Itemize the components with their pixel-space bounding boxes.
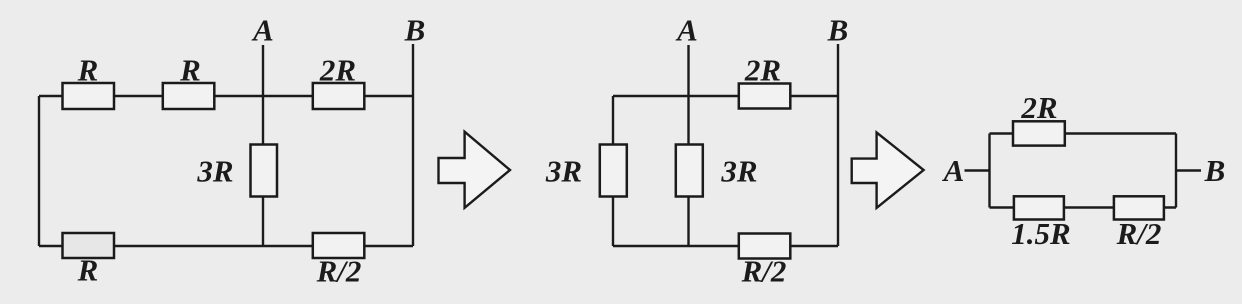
wire: circuit 3 node A stub bbox=[965, 169, 990, 171]
svg-text:B: B bbox=[827, 13, 849, 48]
svg-text:R/2: R/2 bbox=[316, 254, 362, 289]
wire: circuit 1 top wire bbox=[39, 95, 413, 97]
wire: circuit 2 node A vertical bbox=[687, 45, 689, 246]
wire: circuit 1 node B right rail bbox=[412, 44, 414, 246]
wire: circuit 2 top wire bbox=[613, 95, 838, 97]
svg-text:B: B bbox=[404, 13, 426, 48]
resistor R (circuit 1 top-left) bbox=[63, 83, 115, 109]
svg-text:B: B bbox=[1204, 153, 1226, 188]
arrow (between circuit 1 and circuit 2) bbox=[439, 132, 511, 208]
resistor 2R (circuit 3 top) bbox=[1013, 121, 1065, 145]
svg-text:A: A bbox=[251, 13, 274, 48]
wire: circuit 3 right rail bbox=[1175, 134, 1177, 208]
wire: circuit 2 bottom wire bbox=[613, 245, 838, 247]
resistor 3R (circuit 2 middle vertical) bbox=[676, 145, 703, 197]
resistor 3R (circuit 2 left vertical) bbox=[600, 145, 627, 197]
wire: circuit 3 bottom branch bbox=[990, 206, 1177, 208]
svg-text:R/2: R/2 bbox=[1116, 216, 1162, 251]
wire: circuit 3 node B stub bbox=[1176, 169, 1201, 171]
resistor R/2 (circuit 2 bottom) bbox=[739, 234, 791, 259]
wire: circuit 3 top branch bbox=[990, 132, 1177, 134]
resistor R (circuit 1 top-middle) bbox=[163, 83, 215, 109]
wire: circuit 3 left rail bbox=[988, 134, 990, 208]
svg-text:2R: 2R bbox=[1020, 90, 1057, 125]
svg-text:R/2: R/2 bbox=[741, 254, 787, 289]
svg-text:2R: 2R bbox=[319, 53, 356, 88]
resistor 2R (circuit 1 top-right) bbox=[313, 83, 365, 109]
wire: circuit 1 node A vertical bbox=[262, 45, 264, 246]
arrow (between circuit 2 and circuit 3) bbox=[852, 133, 924, 208]
wire: circuit 1 bottom wire bbox=[39, 245, 413, 247]
resistor R/2 (circuit 3 bottom-right) bbox=[1114, 196, 1164, 219]
svg-text:3R: 3R bbox=[545, 154, 582, 189]
svg-text:R: R bbox=[179, 53, 201, 88]
svg-text:1.5R: 1.5R bbox=[1011, 216, 1070, 251]
resistor 1.5R (circuit 3 bottom-left) bbox=[1014, 196, 1064, 219]
svg-text:2R: 2R bbox=[744, 53, 781, 88]
svg-text:3R: 3R bbox=[196, 154, 233, 189]
wire: circuit 2 node B right rail bbox=[837, 44, 839, 246]
svg-text:3R: 3R bbox=[720, 154, 757, 189]
svg-text:A: A bbox=[675, 13, 698, 48]
resistor R (circuit 1 bottom-left) bbox=[63, 233, 115, 258]
resistor R/2 (circuit 1 bottom-right) bbox=[313, 233, 365, 258]
resistor 2R (circuit 2 top) bbox=[739, 84, 791, 109]
wire: circuit 1 left rail bbox=[38, 96, 40, 246]
svg-text:R: R bbox=[77, 253, 99, 288]
svg-text:R: R bbox=[77, 53, 99, 88]
wire: circuit 2 left rail bbox=[612, 96, 614, 246]
svg-text:A: A bbox=[942, 153, 965, 188]
resistor 3R (circuit 1 middle vertical) bbox=[251, 145, 278, 197]
